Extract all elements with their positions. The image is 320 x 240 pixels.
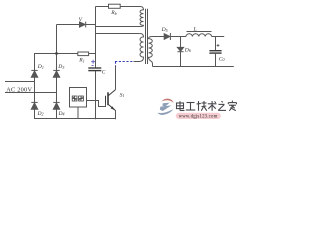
diode D6 [177, 47, 183, 51]
resistor R1 [78, 52, 89, 56]
watermark url pill [176, 113, 221, 119]
transformer core [146, 9, 148, 64]
wire D5 to inductor [171, 36, 186, 38]
svg-text:D4: D4 [58, 111, 65, 117]
diode D3 [53, 70, 59, 77]
svg-text:R1: R1 [78, 58, 84, 64]
wire IC output to gate [87, 101, 106, 107]
svg-text:D6: D6 [184, 47, 191, 53]
wire S1 emitter to rail [115, 110, 117, 119]
capacitor C0 [209, 51, 221, 53]
wire 2 bus to winding B top [96, 33, 140, 35]
svg-text:D2: D2 [37, 111, 44, 117]
diode D2 [31, 102, 37, 109]
IC text 驱动 (drawn strokes) [72, 96, 83, 101]
transformer winding C (secondary) [149, 37, 153, 67]
wire 1 winding A bottom to bus [96, 26, 141, 28]
svg-text:D3: D3 [57, 64, 64, 70]
svg-text:C0: C0 [219, 56, 225, 62]
polarity mark of capacitor C [91, 60, 95, 66]
wire D6 branch vertical [180, 37, 182, 67]
watermark logo (stylized zhi with red crescent) [158, 99, 174, 115]
diode V [80, 22, 86, 28]
diode D1 [31, 70, 37, 77]
wire R1 to bus [89, 53, 96, 55]
transformer winding A (reset winding) [140, 7, 144, 27]
wire bus vertical lower (cap C negative lead) [95, 71, 97, 119]
svg-text:D5: D5 [161, 27, 168, 33]
diode D4 [53, 102, 59, 109]
capacitor C [88, 68, 101, 71]
wire C0 top lead [215, 37, 217, 51]
svg-text:D1: D1 [37, 64, 44, 70]
diode D5 [164, 33, 170, 40]
wire C0 bottom lead [215, 54, 217, 67]
wire IC ground stub [77, 107, 79, 118]
wire output bottom rail [153, 66, 234, 68]
wire AC line 1 [5, 81, 35, 83]
wire S1 collector vertical [115, 66, 117, 90]
resistor Rb [109, 4, 121, 8]
wire DC plus rail [34, 53, 78, 55]
IC box (driver) [70, 88, 87, 108]
junction dot bridge top [55, 52, 58, 55]
wire secondary top rail to D5 [152, 36, 165, 38]
svg-text:C: C [102, 70, 106, 76]
svg-text:Rb: Rb [110, 10, 116, 16]
wire bridge right leg [56, 54, 58, 120]
svg-text:AC 200V: AC 200V [6, 87, 32, 94]
polarity mark of capacitor C0 [217, 44, 220, 47]
wire minus rail [35, 118, 116, 120]
svg-text:www.dgjs123.com: www.dgjs123.com [179, 115, 218, 120]
svg-text:L: L [193, 26, 197, 32]
wire bridge left leg [34, 54, 36, 120]
wire snubber top (Rb wire) [96, 6, 141, 8]
inductor L coil [186, 34, 212, 37]
svg-text:S1: S1 [120, 92, 125, 98]
transistor S1 (IGBT) [106, 90, 116, 111]
wire bus vertical upper [95, 7, 97, 68]
wire output top rail [212, 36, 225, 38]
wire clamp branch horizontal (diode V wire) [57, 24, 96, 26]
watermark text 电工技术之家 (drawn strokes) [177, 101, 237, 111]
wire feedback dashed (blue) [115, 62, 134, 67]
wire clamp branch vertical [56, 25, 58, 54]
transformer winding B (primary) [134, 34, 144, 62]
svg-text:V: V [79, 17, 83, 23]
inductor L core bar [187, 31, 212, 33]
wire AC line 2 [5, 92, 57, 94]
